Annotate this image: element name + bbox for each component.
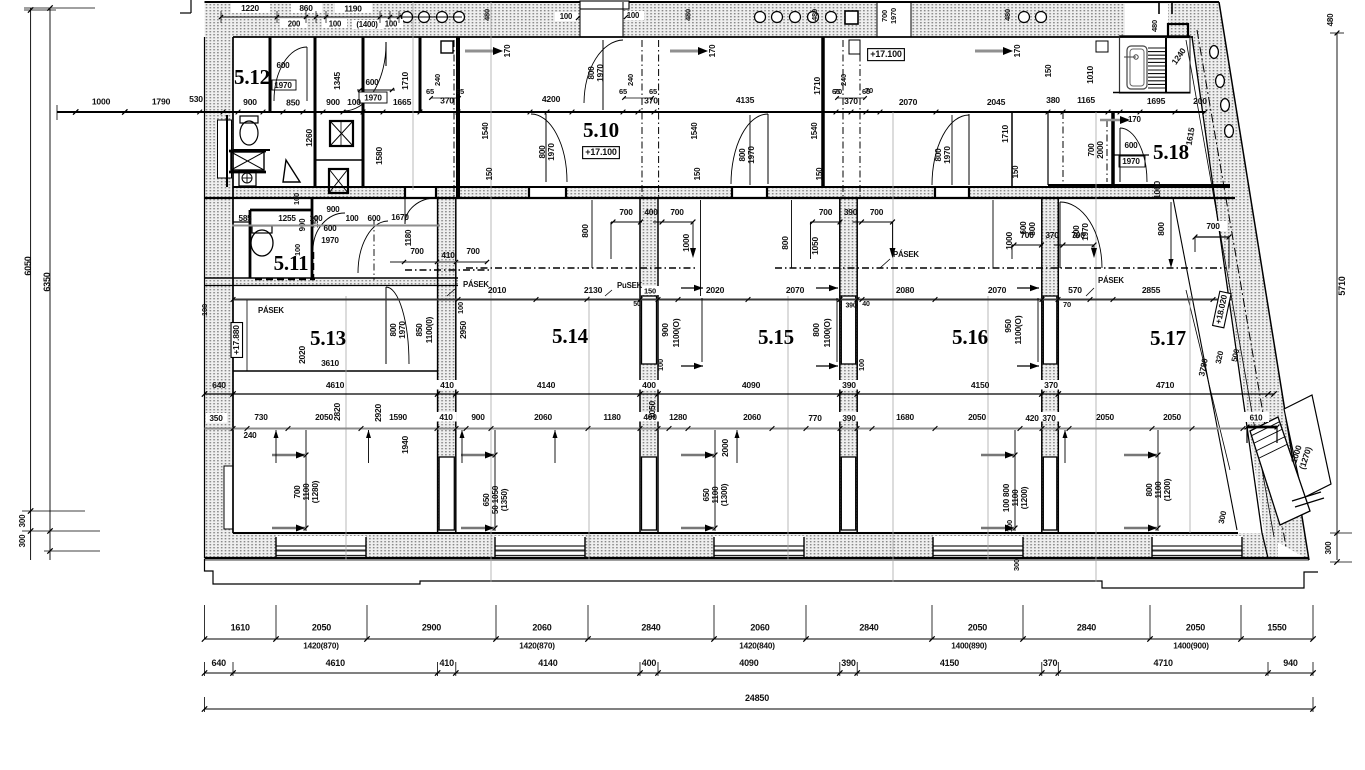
svg-text:4610: 4610 [326,658,345,668]
svg-text:1050: 1050 [647,401,657,419]
svg-text:700: 700 [619,207,633,217]
svg-text:2050: 2050 [1186,623,1205,633]
svg-text:410: 410 [440,380,454,390]
svg-text:1970: 1970 [943,146,952,164]
svg-text:1100: 1100 [711,486,720,504]
svg-text:800: 800 [1072,225,1081,239]
svg-text:2855: 2855 [1142,285,1161,295]
svg-text:PÁSEK: PÁSEK [893,250,919,259]
svg-text:1580: 1580 [374,147,384,165]
svg-text:5.12: 5.12 [234,65,270,89]
svg-text:800: 800 [1145,483,1154,497]
svg-text:300: 300 [1012,559,1021,571]
svg-text:1280: 1280 [669,412,687,422]
svg-text:900: 900 [471,412,485,422]
svg-text:610: 610 [1250,414,1263,423]
svg-text:1540: 1540 [690,122,699,140]
svg-text:480: 480 [684,9,693,21]
svg-text:100: 100 [456,302,465,314]
svg-text:1000: 1000 [681,234,691,252]
svg-text:100: 100 [309,214,323,223]
svg-text:1970: 1970 [321,236,339,245]
svg-text:2045: 2045 [987,97,1006,107]
svg-text:2070: 2070 [899,97,918,107]
svg-text:5.16: 5.16 [952,325,988,349]
svg-text:50: 50 [633,301,641,308]
svg-text:730: 730 [254,412,268,422]
svg-text:240: 240 [243,431,257,440]
svg-text:+17.880: +17.880 [231,325,241,355]
svg-text:(1200): (1200) [1020,486,1029,509]
svg-text:1000: 1000 [92,97,111,107]
svg-text:65: 65 [619,87,627,96]
svg-text:2050: 2050 [968,623,987,633]
svg-text:300: 300 [1324,541,1333,554]
svg-text:1970: 1970 [364,94,382,103]
svg-text:1255: 1255 [278,214,296,223]
svg-text:1345: 1345 [332,72,342,90]
svg-text:370: 370 [644,96,658,106]
svg-text:1165: 1165 [1077,95,1095,105]
svg-text:PÁSEK: PÁSEK [463,280,489,289]
svg-text:6350: 6350 [42,272,52,291]
svg-text:700: 700 [466,246,480,256]
svg-text:70: 70 [1063,300,1071,309]
svg-text:700: 700 [819,207,833,217]
svg-text:170: 170 [1013,44,1022,57]
svg-text:1050: 1050 [810,237,820,255]
svg-text:1190: 1190 [344,4,362,14]
svg-text:700: 700 [870,207,884,217]
svg-text:1695: 1695 [1147,96,1166,106]
svg-text:800: 800 [811,323,821,337]
svg-text:240: 240 [626,74,635,86]
svg-text:800: 800 [389,323,398,337]
svg-text:1970: 1970 [889,8,898,24]
svg-text:640: 640 [212,380,226,390]
svg-text:100: 100 [385,20,398,29]
svg-text:800: 800 [934,148,943,162]
svg-text:390: 390 [844,207,858,217]
svg-text:+17.100: +17.100 [870,49,902,59]
svg-text:5.11: 5.11 [274,251,309,275]
svg-text:+17.100: +17.100 [585,147,617,157]
svg-text:PÁSEK: PÁSEK [1098,276,1124,285]
svg-text:100: 100 [345,214,359,223]
svg-text:370: 370 [440,96,454,106]
svg-text:2000: 2000 [1096,141,1105,159]
svg-text:4090: 4090 [742,380,761,390]
svg-text:600: 600 [365,78,379,87]
svg-text:200: 200 [1193,96,1207,106]
svg-text:640: 640 [212,658,227,668]
svg-text:PuSEK: PuSEK [617,281,643,290]
svg-text:4610: 4610 [326,380,345,390]
svg-text:800: 800 [780,236,790,250]
svg-text:4200: 4200 [542,94,561,104]
svg-text:1970: 1970 [747,146,756,164]
svg-text:390: 390 [842,380,856,390]
svg-text:1590: 1590 [389,412,407,422]
svg-text:900: 900 [660,323,670,337]
svg-text:585: 585 [238,214,252,223]
svg-text:370: 370 [1045,230,1059,240]
svg-text:70: 70 [865,86,873,95]
svg-text:650: 650 [482,493,491,507]
svg-text:410: 410 [439,658,454,668]
svg-text:50 1050: 50 1050 [491,485,500,514]
svg-text:410: 410 [439,412,453,422]
svg-text:800: 800 [1156,222,1166,236]
svg-text:4140: 4140 [537,380,556,390]
svg-text:1100(O): 1100(O) [671,318,681,347]
svg-text:390: 390 [842,413,856,423]
svg-text:1420(870): 1420(870) [303,642,339,651]
svg-text:2840: 2840 [641,623,660,633]
svg-text:1180: 1180 [603,412,621,422]
svg-text:150: 150 [693,167,702,180]
svg-text:5.10: 5.10 [583,118,619,142]
svg-text:150: 150 [815,167,824,180]
svg-text:1100(O): 1100(O) [1013,315,1023,344]
svg-text:100 800: 100 800 [1002,483,1011,512]
svg-text:700: 700 [1206,221,1220,231]
svg-text:650: 650 [702,488,711,502]
svg-text:350: 350 [209,413,223,423]
svg-text:530: 530 [189,94,203,104]
svg-text:1180: 1180 [404,229,413,246]
svg-text:100: 100 [656,359,665,371]
svg-text:65: 65 [456,87,464,96]
svg-text:1260: 1260 [304,129,314,147]
svg-text:65: 65 [426,87,434,96]
svg-text:700: 700 [880,10,889,22]
svg-text:6050: 6050 [23,256,33,275]
svg-text:4710: 4710 [1156,380,1175,390]
svg-text:400: 400 [642,380,656,390]
svg-text:170: 170 [708,44,717,57]
svg-text:(1400): (1400) [356,20,378,29]
svg-text:100: 100 [560,12,573,21]
svg-text:2920: 2920 [373,404,383,422]
svg-text:1400(900): 1400(900) [1173,642,1209,651]
svg-text:480: 480 [1150,20,1159,32]
svg-text:370: 370 [844,96,858,106]
svg-text:1970: 1970 [274,81,292,90]
svg-text:2050: 2050 [968,412,986,422]
svg-text:1400(890): 1400(890) [951,642,987,651]
svg-text:5.17: 5.17 [1150,326,1186,350]
svg-text:600: 600 [323,224,337,233]
svg-text:390: 390 [845,303,856,310]
svg-text:100: 100 [627,11,640,20]
svg-text:570: 570 [1068,285,1082,295]
svg-text:900: 900 [243,97,257,107]
svg-text:800: 800 [1027,222,1037,236]
svg-text:150: 150 [644,287,656,296]
svg-text:4710: 4710 [1154,658,1173,668]
svg-text:4150: 4150 [971,380,990,390]
svg-text:600: 600 [1019,221,1028,235]
svg-text:410: 410 [441,250,455,260]
svg-text:1100: 1100 [1154,481,1163,499]
svg-text:70: 70 [834,87,842,96]
svg-text:150: 150 [485,167,494,180]
svg-text:1010: 1010 [1085,66,1095,84]
svg-text:150: 150 [1044,64,1053,77]
svg-text:200: 200 [288,20,301,29]
svg-text:2080: 2080 [896,285,915,295]
svg-text:1665: 1665 [393,97,412,107]
svg-text:480: 480 [483,9,492,21]
svg-text:400: 400 [644,207,658,217]
svg-text:1970: 1970 [547,143,556,161]
svg-text:900: 900 [326,97,340,107]
svg-text:3610: 3610 [321,358,339,368]
svg-text:1000: 1000 [1152,181,1162,199]
svg-text:1000: 1000 [1004,232,1014,250]
svg-text:100: 100 [329,20,342,29]
svg-text:800: 800 [538,145,547,159]
svg-text:1540: 1540 [481,122,490,140]
svg-text:480: 480 [1326,13,1335,26]
svg-text:600: 600 [1124,141,1138,150]
svg-text:150: 150 [1011,165,1020,178]
svg-text:950: 950 [1003,319,1013,333]
svg-text:2060: 2060 [532,623,551,633]
svg-text:170: 170 [1128,115,1141,124]
svg-text:240: 240 [839,74,848,86]
svg-text:2050: 2050 [315,412,333,422]
svg-text:(1200): (1200) [1163,478,1172,501]
svg-text:1790: 1790 [152,97,171,107]
svg-text:2050: 2050 [312,623,331,633]
svg-text:2050: 2050 [1096,412,1114,422]
svg-text:4140: 4140 [538,658,557,668]
svg-text:40: 40 [862,301,870,308]
svg-text:(1350): (1350) [500,488,509,511]
svg-text:700: 700 [410,246,424,256]
svg-text:940: 940 [1283,658,1298,668]
svg-text:1550: 1550 [1267,623,1286,633]
svg-text:860: 860 [299,3,313,13]
svg-text:700: 700 [293,485,302,499]
svg-text:100: 100 [200,304,209,316]
svg-text:480: 480 [810,9,819,21]
svg-text:850: 850 [286,98,300,108]
svg-text:1710: 1710 [812,77,822,95]
svg-text:1420(870): 1420(870) [519,642,555,651]
svg-text:1100: 1100 [302,483,311,501]
svg-text:(1300): (1300) [720,483,729,506]
svg-text:1970: 1970 [398,321,407,339]
svg-text:4150: 4150 [940,658,959,668]
svg-text:240: 240 [433,74,442,86]
svg-text:2000: 2000 [720,439,730,457]
svg-text:1100(O): 1100(O) [822,318,832,347]
svg-text:1540: 1540 [810,122,819,140]
svg-text:2840: 2840 [859,623,878,633]
svg-text:100: 100 [857,359,866,371]
svg-text:PÁSEK: PÁSEK [258,306,284,315]
svg-text:370: 370 [1043,658,1058,668]
svg-text:2060: 2060 [750,623,769,633]
svg-text:24850: 24850 [745,693,769,703]
svg-text:1220: 1220 [241,3,259,13]
svg-text:300: 300 [18,534,27,547]
svg-text:100: 100 [347,97,361,107]
svg-text:850: 850 [415,323,424,337]
svg-text:5.13: 5.13 [310,326,346,350]
svg-text:390: 390 [841,658,856,668]
svg-text:2840: 2840 [1077,623,1096,633]
svg-text:100: 100 [293,244,302,256]
svg-text:2020: 2020 [706,285,725,295]
svg-text:1670: 1670 [391,213,409,222]
svg-text:(1280): (1280) [311,480,320,503]
svg-text:1100: 1100 [1011,489,1020,507]
svg-text:420: 420 [1025,413,1039,423]
svg-text:600: 600 [276,61,290,70]
svg-text:1610: 1610 [231,623,250,633]
svg-text:5.14: 5.14 [552,324,589,348]
svg-text:700: 700 [1087,143,1096,157]
svg-text:400: 400 [642,658,657,668]
svg-text:65: 65 [649,87,657,96]
svg-text:2820: 2820 [332,403,342,421]
svg-text:1420(840): 1420(840) [739,642,775,651]
svg-text:2900: 2900 [422,623,441,633]
svg-text:5.15: 5.15 [758,325,794,349]
svg-text:5710: 5710 [1337,276,1347,295]
svg-text:2070: 2070 [988,285,1007,295]
svg-text:2130: 2130 [584,285,603,295]
svg-text:1710: 1710 [1000,125,1010,143]
svg-text:2050: 2050 [1163,412,1181,422]
svg-text:1970: 1970 [1081,223,1090,241]
svg-text:170: 170 [503,44,512,57]
svg-text:1680: 1680 [896,412,914,422]
svg-text:2010: 2010 [488,285,507,295]
svg-text:4135: 4135 [736,95,755,105]
svg-text:480: 480 [1003,9,1012,21]
svg-text:100: 100 [292,193,301,205]
svg-text:1710: 1710 [400,72,410,90]
svg-text:2060: 2060 [743,412,761,422]
svg-text:800: 800 [587,66,596,80]
svg-text:300: 300 [18,514,27,527]
svg-text:1970: 1970 [596,64,605,82]
svg-text:800: 800 [738,148,747,162]
svg-text:2070: 2070 [786,285,805,295]
svg-text:900: 900 [326,205,340,214]
svg-text:380: 380 [1046,95,1060,105]
svg-text:370: 370 [1044,380,1058,390]
svg-text:2020: 2020 [297,346,307,364]
svg-text:370: 370 [1042,413,1056,423]
svg-text:700: 700 [670,207,684,217]
svg-text:600: 600 [367,214,381,223]
svg-text:2060: 2060 [534,412,552,422]
svg-text:770: 770 [808,413,822,423]
svg-text:800: 800 [580,224,590,238]
svg-text:2950: 2950 [458,321,468,339]
svg-text:1100(0): 1100(0) [425,316,434,343]
svg-text:4090: 4090 [739,658,758,668]
svg-text:1940: 1940 [400,436,410,454]
svg-text:1970: 1970 [1122,157,1140,166]
